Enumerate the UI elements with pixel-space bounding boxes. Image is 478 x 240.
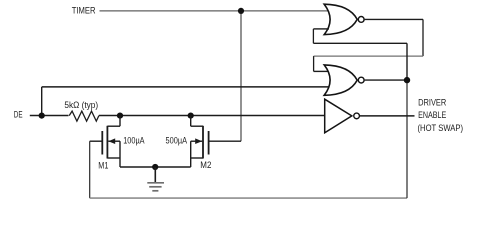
wire M1 gate lead <box>90 140 103 142</box>
wire NOR1 output <box>365 18 423 20</box>
svg-text:100µA: 100µA <box>123 136 144 146</box>
svg-text:TIMER: TIMER <box>72 6 96 16</box>
wire into NOR1 bottom input <box>313 28 329 30</box>
nor gate U1 <box>324 4 364 34</box>
junction NOR2 output <box>404 77 410 83</box>
wire DE to NOR2 lower input <box>42 86 329 88</box>
resistor R1 <box>69 111 99 121</box>
wire NOR1 out to NOR2 input horizontal <box>314 55 423 57</box>
wire NOR2 out up <box>406 43 408 80</box>
junction DE node <box>39 113 45 119</box>
wire NOR2 out down to feedback <box>406 80 408 198</box>
svg-text:M2: M2 <box>200 160 211 170</box>
junction ground node <box>152 164 158 170</box>
ground <box>147 167 164 191</box>
junction TIMER / M2 gate <box>238 8 244 14</box>
wire down to NOR2 top input <box>313 56 315 71</box>
label DRIVER ENABLE (HOT SWAP) <box>418 97 464 132</box>
wire M2 gate lead <box>209 140 241 142</box>
wire driver enable output <box>360 115 415 117</box>
wire TIMER horizontal <box>100 10 331 12</box>
svg-text:M1: M1 <box>98 160 108 170</box>
wire M1 gate down left <box>89 141 91 198</box>
wire bottom feedback <box>90 197 407 199</box>
junction M1 drain <box>117 113 123 119</box>
wire source rail <box>120 166 191 168</box>
svg-text:DE: DE <box>14 110 23 120</box>
svg-text:(HOT SWAP): (HOT SWAP) <box>418 123 464 133</box>
svg-text:ENABLE: ENABLE <box>418 110 446 120</box>
wire TIMER to M2 gate vertical <box>240 11 242 141</box>
wire NOR1 out down <box>422 19 424 56</box>
nor gate U2 <box>324 65 364 95</box>
wire cross coupling horizontal <box>313 42 407 44</box>
wire DE node to inverter input <box>99 115 326 117</box>
transistor M1 <box>102 116 120 168</box>
transistor M2 <box>191 116 209 168</box>
wire up to NOR1 bottom input <box>312 29 314 43</box>
inverter U3 <box>325 99 360 133</box>
wire into NOR2 top input <box>314 70 329 72</box>
svg-text:500µA: 500µA <box>166 136 188 146</box>
wire NOR2 output <box>365 79 407 81</box>
wire DE stub to resistor <box>30 115 69 117</box>
svg-text:DRIVER: DRIVER <box>418 97 447 107</box>
junction M2 drain <box>188 113 194 119</box>
wire DE node up <box>41 87 43 116</box>
svg-text:5kΩ (typ): 5kΩ (typ) <box>64 100 98 110</box>
